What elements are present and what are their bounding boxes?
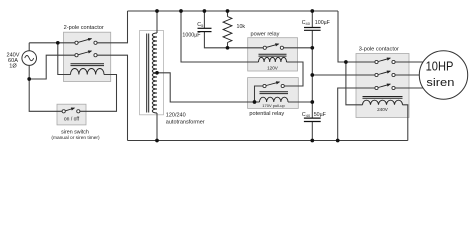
3-pole contactor box xyxy=(356,54,409,118)
wire: row1 from source to 2-pole contactor xyxy=(29,42,75,44)
node: 10k / switch row xyxy=(226,46,230,50)
wire: pole2 output down to bottom rail xyxy=(97,55,127,140)
potential relay box xyxy=(248,78,299,109)
wire: row1 tap down to 2-pole coil left xyxy=(58,43,71,75)
wire: autotransformer bottom to bottom rail xyxy=(156,113,158,141)
2-pole contactor pole 2 xyxy=(75,51,97,57)
node: top rail / autotransformer xyxy=(155,9,159,13)
wire: row2 feed to 3-pole contactor xyxy=(312,74,375,76)
wire: autotransformer tap to potential relay xyxy=(157,73,255,102)
3-pole contactor pole 2 xyxy=(375,71,395,77)
wire: source top lead xyxy=(28,43,30,51)
node: top rail / C5 xyxy=(203,9,207,13)
wire: L1 branch down to 3-pole coil left xyxy=(346,62,363,105)
wire: top rail L1 xyxy=(128,10,339,12)
svg-text:C40: C40 xyxy=(302,20,311,26)
node: row1 coil tap xyxy=(56,41,60,45)
wire: C5 bottom lead to relay switch row xyxy=(204,32,263,48)
wire: bottom rail up to 3-pole row3 xyxy=(338,88,375,141)
wire: potential relay switch left to coil junction xyxy=(255,86,263,102)
potential relay switch xyxy=(263,82,284,88)
power relay coil 120V xyxy=(259,54,287,62)
capacitor C40 50uF xyxy=(304,118,321,121)
wire: pole1 output to top rail riser xyxy=(97,11,127,43)
svg-text:C40: C40 xyxy=(302,112,311,118)
node: potential coil left xyxy=(253,100,257,104)
node: bottom rail / row3 feed xyxy=(336,139,340,143)
autotransformer winding xyxy=(152,33,157,113)
wire: left vertical down to siren switch xyxy=(29,79,62,111)
svg-text:240V: 240V xyxy=(377,107,389,112)
2-pole contactor pole 1 xyxy=(75,39,97,45)
node: autotransformer tap xyxy=(155,71,159,75)
node: source bottom junction xyxy=(27,77,31,81)
autotransformer core bars xyxy=(147,34,149,113)
svg-text:potential relay: potential relay xyxy=(249,111,284,117)
wire: source bottom to row2 riser xyxy=(29,55,75,79)
svg-text:120/240: 120/240 xyxy=(166,112,186,118)
wire: 10k resistor bottom lead xyxy=(227,43,229,48)
wire: source bottom lead to junction xyxy=(28,65,30,79)
3-pole contactor pole 3 xyxy=(375,84,395,90)
siren switch box xyxy=(57,104,86,125)
ac source 240V 60A 1Ø xyxy=(22,51,37,66)
svg-text:(manual or siren timer): (manual or siren timer) xyxy=(51,135,100,141)
2-pole contactor box xyxy=(64,32,111,81)
svg-text:170V pull-up: 170V pull-up xyxy=(262,103,285,108)
svg-text:1Ø: 1Ø xyxy=(9,64,17,70)
wire: C5 top lead xyxy=(203,11,205,28)
svg-text:siren switch: siren switch xyxy=(61,129,89,135)
siren motor 10HP xyxy=(419,51,467,99)
power relay switch xyxy=(263,44,283,50)
node: 3-pole row1 / coil branch xyxy=(344,60,348,64)
node: top rail / coil feed xyxy=(179,9,183,13)
wire: top rail down to 3-pole row1 xyxy=(338,11,375,62)
svg-text:120V: 120V xyxy=(267,66,279,71)
svg-text:1000µF: 1000µF xyxy=(182,33,201,39)
potential relay coil 170V pull-up xyxy=(260,92,289,102)
svg-text:3-pole contactor: 3-pole contactor xyxy=(359,47,399,53)
svg-text:10k: 10k xyxy=(237,24,246,30)
capacitor C5 xyxy=(198,28,212,31)
capacitor C40 100uF xyxy=(304,28,321,31)
node: top rail / C40 xyxy=(310,9,314,13)
svg-text:10HP: 10HP xyxy=(426,60,454,74)
node: M / switch row xyxy=(310,46,314,50)
svg-text:100µF: 100µF xyxy=(315,20,331,26)
wire: autotransformer top feed xyxy=(156,11,158,33)
wire: power relay coil right to potential relay switch xyxy=(284,62,303,86)
svg-text:siren: siren xyxy=(426,77,454,89)
svg-text:C5: C5 xyxy=(197,22,204,28)
wire: 2-pole coil right to siren switch right xyxy=(80,75,117,112)
power relay box xyxy=(248,38,298,71)
node: M / potential coil xyxy=(310,100,314,104)
wire: 3-pole coil right to bottom rail xyxy=(403,105,408,141)
node: top rail / 10k xyxy=(226,9,230,13)
wire: potential relay coil right to node M xyxy=(288,101,312,103)
node: M / row2 feed xyxy=(310,73,314,77)
svg-text:2-pole contactor: 2-pole contactor xyxy=(64,25,104,31)
2-pole contactor coil xyxy=(71,64,105,75)
wire: 3-pole row3 output to siren xyxy=(395,87,423,89)
svg-text:on / off: on / off xyxy=(64,116,80,122)
wire: 10k resistor top lead xyxy=(227,11,229,17)
wire: 3-pole row2 output to siren xyxy=(395,74,419,76)
3-pole contactor pole 1 xyxy=(375,58,395,64)
siren switch contact xyxy=(62,108,80,113)
node: bottom rail / C40-50 xyxy=(310,139,314,143)
wire: potential relay coil left stub xyxy=(255,101,260,103)
3-pole contactor coil 240V xyxy=(363,97,403,105)
wire: node M vertical (C40 chain) xyxy=(311,11,313,27)
svg-text:power relay: power relay xyxy=(251,31,280,37)
wire: bottom rail xyxy=(128,140,408,142)
wire: power relay switch output to node M xyxy=(284,47,313,49)
node: bottom rail / autotransformer xyxy=(155,139,159,143)
autotransformer box xyxy=(140,31,164,115)
wire: power relay coil left feed from top rail xyxy=(181,11,259,62)
svg-text:autotransformer: autotransformer xyxy=(166,120,205,126)
svg-text:50µF: 50µF xyxy=(314,112,327,118)
wire: 3-pole row1 output to siren xyxy=(395,61,423,63)
resistor 10k xyxy=(223,17,232,43)
